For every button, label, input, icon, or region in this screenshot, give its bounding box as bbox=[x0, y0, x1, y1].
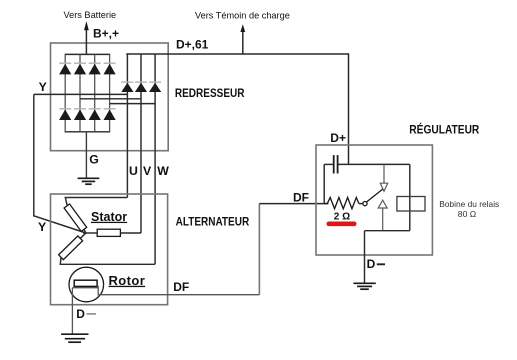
wire bridge column 2 bbox=[79, 54, 81, 131]
wire node to bottom winding bbox=[80, 233, 86, 238]
wire bottom bus bbox=[65, 131, 111, 133]
svg-text:REDRESSEUR: REDRESSEUR bbox=[175, 86, 245, 100]
label D- regulator dash bbox=[377, 263, 385, 265]
ground under G bbox=[78, 178, 100, 184]
red underline mark bbox=[327, 222, 357, 227]
diode D1 top row bbox=[59, 63, 71, 74]
diode D7 bottom row bbox=[89, 109, 101, 120]
wire bridge column 4 bbox=[109, 54, 111, 131]
relay coil bbox=[397, 197, 425, 212]
svg-text:80 Ω: 80 Ω bbox=[458, 209, 477, 219]
diode D11 exciter bbox=[149, 82, 161, 92]
rotor circle bbox=[69, 267, 104, 302]
svg-text:Rotor: Rotor bbox=[109, 273, 146, 288]
svg-text:W: W bbox=[157, 164, 169, 178]
svg-text:B+,+: B+,+ bbox=[93, 27, 119, 41]
wire stator centre to middle winding bbox=[83, 232, 97, 234]
wire middle winding to V bbox=[120, 232, 141, 234]
diode D5 bottom row bbox=[59, 109, 71, 120]
diode D6 bottom row bbox=[74, 109, 86, 120]
svg-text:U: U bbox=[129, 164, 138, 178]
svg-text:DF: DF bbox=[293, 190, 309, 204]
alternator box bbox=[51, 194, 260, 305]
svg-text:Vers Batterie: Vers Batterie bbox=[64, 10, 117, 20]
wire G stub bbox=[85, 132, 87, 179]
upper contact triangle bbox=[380, 183, 387, 191]
wire lower contact stub bbox=[382, 208, 384, 231]
wire phase link A from Y bbox=[34, 93, 128, 95]
stator winding middle bbox=[97, 229, 120, 236]
wire U phase into stator bbox=[65, 198, 127, 207]
svg-text:Y: Y bbox=[38, 220, 46, 234]
diode D4 top row bbox=[104, 63, 116, 74]
svg-text:ALTERNATEUR: ALTERNATEUR bbox=[176, 214, 250, 228]
diode D3 top row bbox=[89, 63, 101, 74]
wire upper contact stub bbox=[383, 164, 385, 183]
capacitor C1 bbox=[334, 155, 338, 173]
wire coil riser bbox=[409, 164, 411, 230]
wire bridge column 1 bbox=[64, 54, 66, 131]
rectifier box bbox=[51, 43, 169, 151]
wire phase link B bbox=[80, 98, 141, 100]
diode D8 bottom row bbox=[104, 109, 116, 120]
wire phase link C bbox=[110, 103, 156, 105]
wire exciter column U bbox=[126, 54, 128, 198]
svg-text:D: D bbox=[367, 257, 376, 271]
svg-text:Bobine du relais: Bobine du relais bbox=[439, 199, 499, 209]
wire node to top winding bbox=[84, 229, 87, 233]
wire bridge column 3 bbox=[94, 54, 96, 131]
stator winding top bbox=[64, 204, 87, 231]
stator winding bottom bbox=[59, 236, 83, 260]
label D- dash bbox=[87, 313, 97, 315]
svg-text:G: G bbox=[89, 153, 99, 167]
svg-text:Vers Témoin de charge: Vers Témoin de charge bbox=[195, 11, 290, 21]
regulator box bbox=[316, 145, 432, 255]
wire top bus bbox=[65, 53, 111, 55]
wire DF from alternator to regulator bbox=[259, 203, 328, 205]
resistor R1 2ohm bbox=[324, 198, 359, 209]
diode D2 top row bbox=[74, 63, 86, 74]
wire exciter column V bbox=[140, 54, 142, 233]
wire rotor left brush to ground bbox=[72, 288, 98, 335]
rotor winding rect bbox=[74, 280, 97, 286]
diode D10 exciter bbox=[135, 82, 147, 92]
svg-text:D+: D+ bbox=[330, 131, 346, 145]
svg-text:Y: Y bbox=[39, 80, 47, 94]
wire bottom winding to W bbox=[60, 257, 155, 264]
svg-text:Stator: Stator bbox=[91, 210, 127, 224]
wire rotor right brush to DF bbox=[97, 286, 259, 294]
wire D- drop bbox=[364, 231, 366, 284]
wire arrow to charge indicator bbox=[240, 24, 245, 54]
wire D+ bus to regulator bbox=[126, 54, 348, 164]
ground under rotor bbox=[61, 334, 88, 342]
switch pivot bbox=[363, 202, 367, 206]
wire Y riser to stator bbox=[34, 94, 86, 233]
svg-text:DF: DF bbox=[173, 280, 189, 294]
svg-text:D+,61: D+,61 bbox=[176, 38, 209, 52]
svg-text:V: V bbox=[143, 164, 152, 178]
svg-text:D: D bbox=[76, 307, 85, 321]
wire left riser bbox=[323, 164, 325, 203]
svg-text:RÉGULATEUR: RÉGULATEUR bbox=[409, 122, 479, 137]
diode D9 exciter bbox=[121, 82, 133, 92]
wire regulator bottom rail bbox=[365, 230, 410, 232]
wire B+ stub with arrow to battery bbox=[84, 21, 89, 54]
lower contact triangle bbox=[378, 200, 387, 208]
wire regulator top rail bbox=[324, 163, 333, 165]
switch arm bbox=[367, 189, 384, 203]
ground regulator bbox=[353, 283, 375, 289]
wire resistor to pivot bbox=[359, 203, 363, 205]
svg-text:2 Ω: 2 Ω bbox=[334, 212, 350, 223]
wire exciter column W bbox=[154, 54, 156, 264]
